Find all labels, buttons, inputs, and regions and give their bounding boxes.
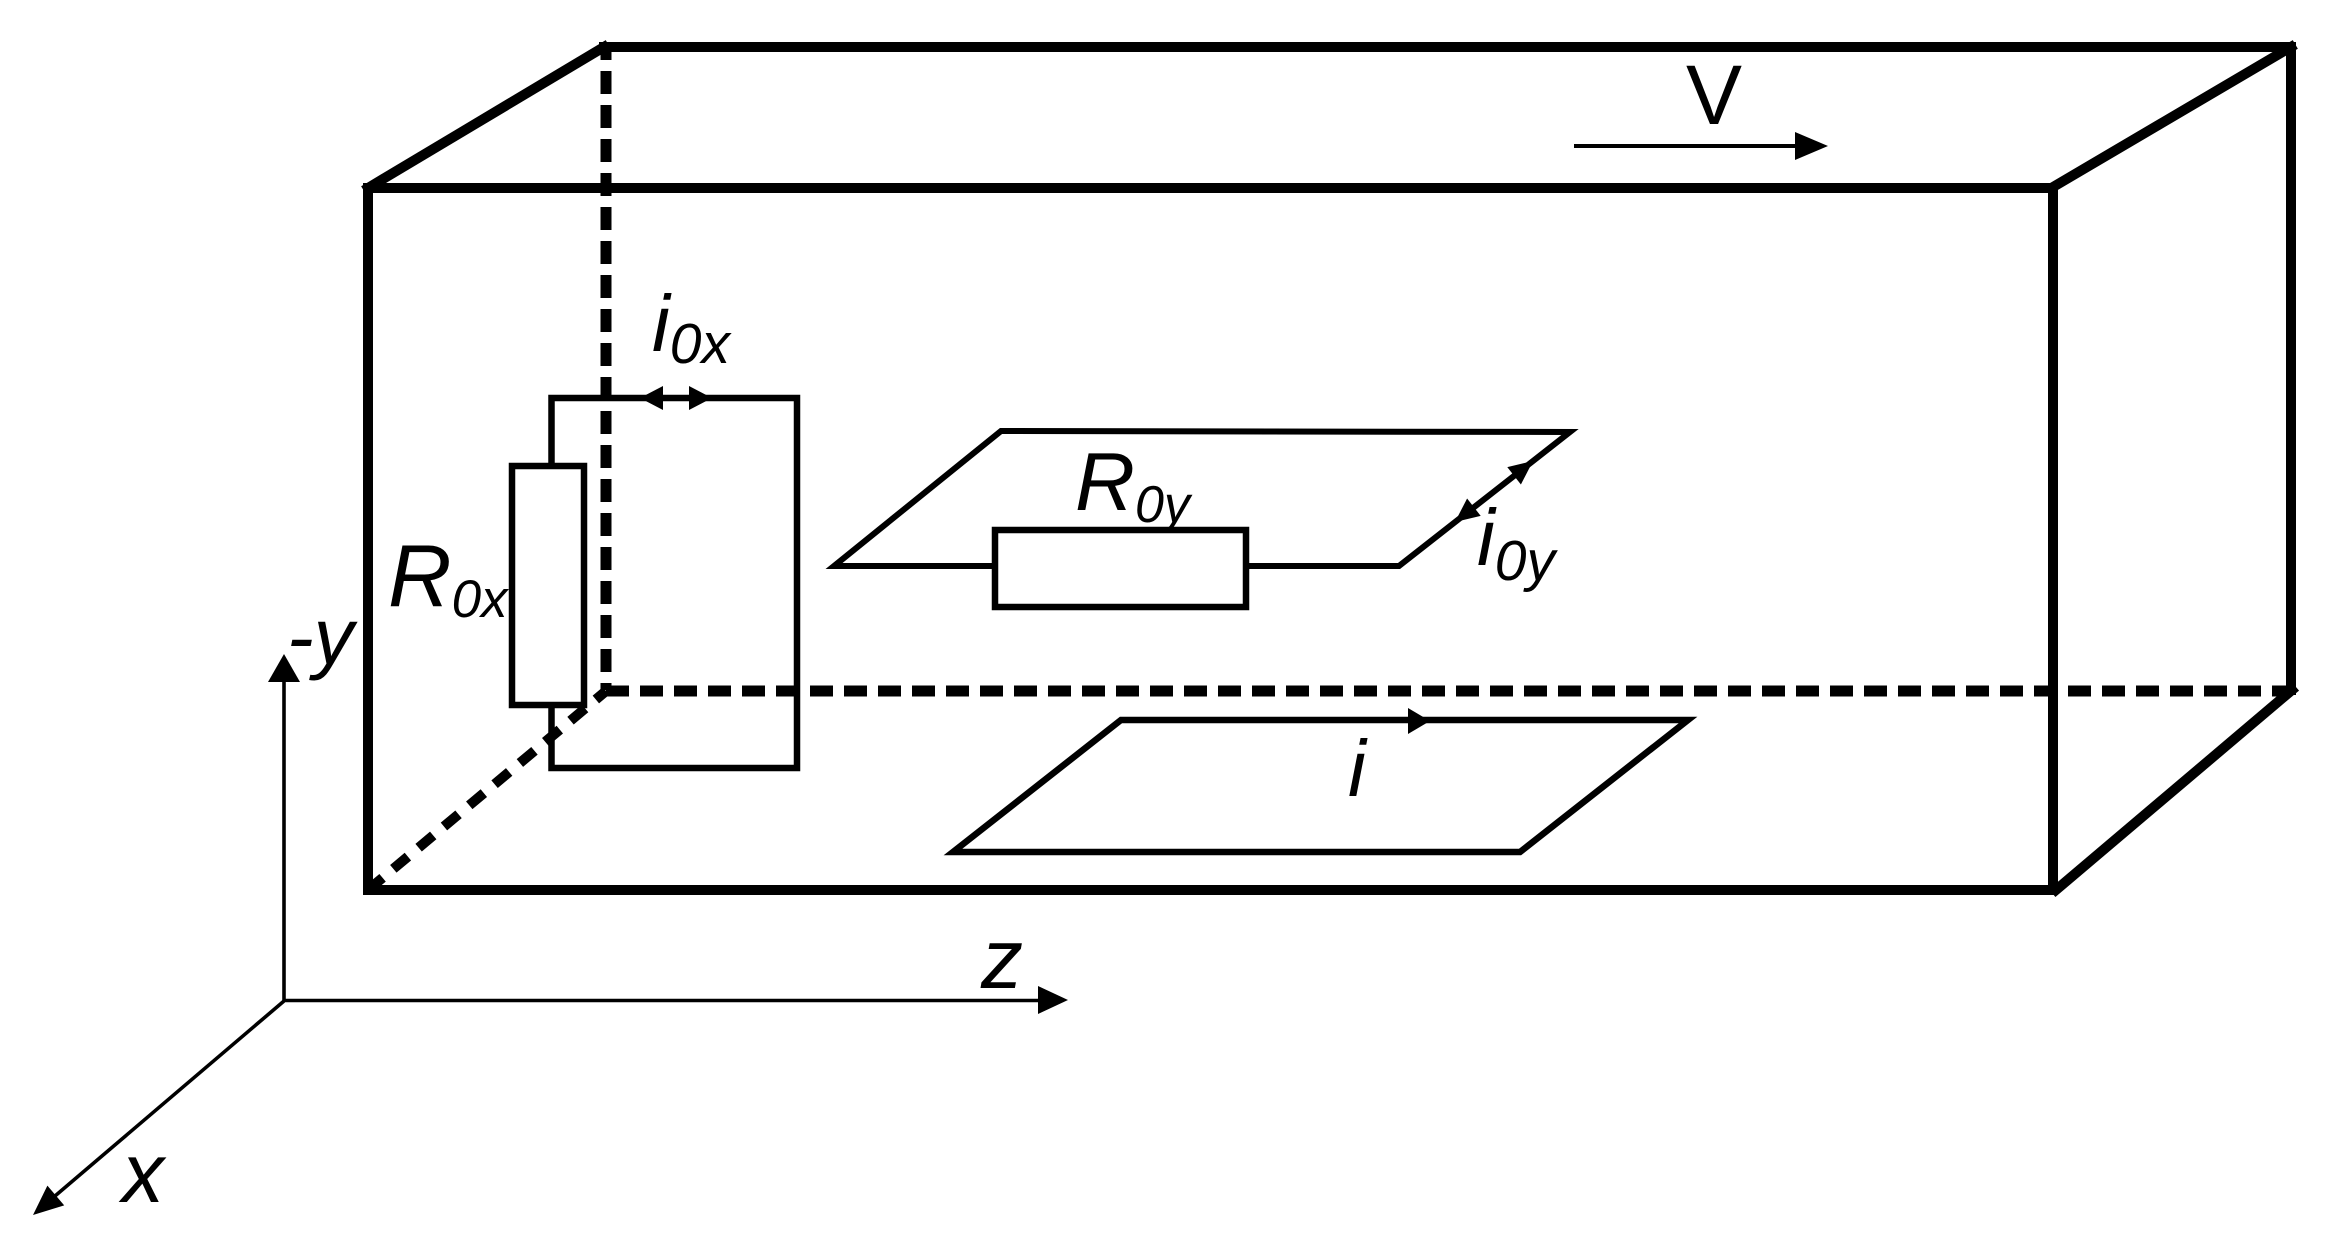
svg-text:z: z (980, 912, 1023, 1006)
svg-text:V: V (1686, 48, 1742, 142)
svg-text:i: i (1348, 724, 1368, 813)
svg-text:x: x (118, 1126, 167, 1220)
svg-text:-y: -y (287, 592, 359, 681)
